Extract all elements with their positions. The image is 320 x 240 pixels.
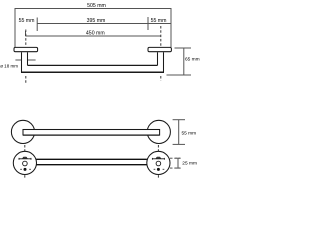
- dimension chain line 55/395/55: [37, 17, 171, 31]
- front view: rosette circle left: [11, 120, 34, 143]
- front view: bar tube: [23, 130, 160, 136]
- bottom view left: wing line: [19, 158, 31, 160]
- svg-text:505 mm: 505 mm: [87, 3, 106, 9]
- wall plate left (top view): [14, 47, 38, 51]
- bottom view: centerline left: [24, 145, 26, 179]
- svg-text:65 mm: 65 mm: [185, 56, 200, 62]
- svg-text:55 mm: 55 mm: [19, 18, 35, 24]
- bottom view: centerline right: [157, 145, 159, 179]
- bar inner contour (tube top edge): [28, 52, 158, 65]
- bottom view right: post bump: [156, 157, 161, 159]
- svg-text:ø 18 mm: ø 18 mm: [0, 64, 18, 69]
- dimension 65 mm: [167, 48, 192, 75]
- tick right: [147, 17, 149, 30]
- svg-text:25 mm: 25 mm: [182, 160, 197, 166]
- bottom view: rosette circle left: [13, 151, 36, 174]
- wall plate right (top view): [148, 47, 171, 51]
- centerline right post lower segment: [160, 76, 162, 81]
- svg-text:450 mm: 450 mm: [86, 31, 105, 37]
- dimension 25 mm: [175, 158, 180, 168]
- bottom view left: post bump: [22, 157, 27, 159]
- tick left: [36, 18, 38, 32]
- bottom view left: screw dot: [24, 168, 27, 171]
- front view: bar tube bottom edge emphasis: [23, 134, 160, 136]
- bottom view: bar tube bottom edge: [36, 164, 147, 166]
- extension line right end: [170, 8, 172, 47]
- bar outer contour (posts + tube, top view): [22, 52, 164, 72]
- bottom view right: screw dot: [157, 168, 160, 171]
- front view: rosette circle right: [147, 120, 170, 143]
- centerline left post: [25, 30, 27, 47]
- bottom view right: screw hole: [156, 161, 161, 166]
- dimension 55 mm (rosette diameter): [173, 120, 185, 145]
- svg-text:395 mm: 395 mm: [87, 18, 106, 24]
- svg-text:55 mm: 55 mm: [151, 18, 167, 24]
- dimension 450 mm line: [26, 31, 161, 36]
- centerline right post: [160, 26, 162, 46]
- bottom view: rosette circle right: [147, 151, 170, 174]
- svg-text:55 mm: 55 mm: [182, 130, 197, 136]
- bottom view left: screw hole: [23, 161, 28, 166]
- dia 18 dimension line across post: [15, 59, 35, 61]
- bottom view: bar tube top edge: [36, 158, 147, 160]
- centerline left post lower segment: [25, 76, 27, 85]
- bottom view right: wing line: [152, 158, 164, 160]
- bottom view left: dash marks at screw: [20, 168, 31, 170]
- dimension 505 mm top line: [15, 8, 171, 47]
- dashed extension lines to 25 mm dim: [170, 158, 180, 168]
- bottom view right: dash marks at screw: [154, 168, 165, 170]
- extension line left end: [14, 8, 16, 47]
